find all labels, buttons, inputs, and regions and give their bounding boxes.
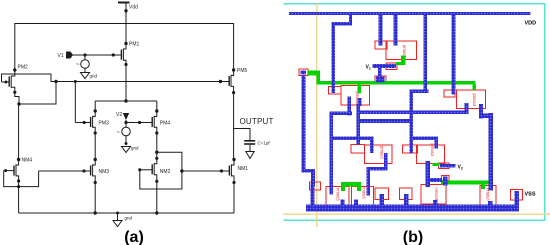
wire metal right link horizontal [479, 114, 493, 118]
wire metal mid horizontal B [356, 119, 412, 123]
contact bottom 3 red box [375, 188, 389, 200]
wire NM4 mirror to NM3 gate [19, 171, 39, 187]
wire metal long left vertical to nmos1 [330, 112, 334, 195]
wire metal V2 stub right [447, 164, 456, 168]
wire metal bottom-right cell drop [433, 200, 438, 207]
wire PM1 gate to V1 [72, 54, 113, 56]
svg-text:Vdd: Vdd [129, 5, 138, 11]
wire NM4 source down [18, 181, 20, 213]
svg-text:VDD: VDD [525, 21, 537, 27]
cell M9 red box (nmos far right) [480, 185, 496, 205]
wire green output bar [441, 181, 490, 185]
transistor PM4 [126, 109, 159, 134]
wire metal VDD bar [289, 12, 531, 15]
ground gnd (main rail) [113, 213, 122, 227]
svg-text:(a): (a) [124, 229, 144, 245]
svg-text:gnd: gnd [125, 216, 133, 221]
svg-text:gnd: gnd [90, 74, 98, 79]
cell M3 red boxes (middle-left) [351, 145, 392, 164]
svg-text:~: ~ [76, 62, 80, 68]
wire cyan boundary bottom [284, 220, 546, 222]
wire metal left contact to VSS [310, 188, 314, 205]
via VSS contact [515, 191, 520, 206]
wire metal drop to left pmos [332, 22, 336, 93]
svg-text:gnd: gnd [131, 146, 139, 151]
wire tail to PM3 drain [94, 101, 96, 111]
via V2 contact [440, 164, 447, 168]
node ground rail dots [94, 211, 97, 214]
svg-text:NM1: NM1 [238, 166, 249, 172]
wire metal mid-left bottom link horizontal [366, 167, 387, 170]
wire PM2 source loop to bias rail [19, 82, 56, 105]
wire metal VSS rail [306, 205, 519, 212]
svg-text:NM2: NM2 [160, 169, 171, 175]
svg-text:~: ~ [117, 130, 121, 136]
node V1 branch dot [83, 53, 86, 56]
svg-text:PM5: PM5 [237, 68, 248, 74]
wire metal horizontal to V2 lower contact [430, 178, 442, 182]
Vdd supply symbol [118, 3, 130, 44]
svg-text:VSS: VSS [525, 192, 536, 198]
wire metal mid-right cell to bottom cell [426, 161, 430, 187]
svg-text:PM3: PM3 [99, 121, 110, 127]
wire metal right pmos stub b [479, 104, 483, 119]
wire NM1 gate to NM2 mirror [182, 170, 222, 172]
wire green V2 stub [433, 163, 440, 166]
via V1 pad [376, 77, 384, 83]
wire metal V1 horizontal [372, 64, 387, 68]
wire metal stub linking B [356, 104, 360, 145]
via left-path contact [310, 184, 314, 189]
wire metal drop into mid-right cell [435, 136, 439, 148]
wire metal right pmos stub a [465, 103, 469, 114]
wire metal V1 clamp [387, 64, 396, 68]
via V2 lower contact [443, 176, 448, 185]
wire NM2 diode loop [140, 152, 182, 189]
cell M6 red box (nmos bottom 1) [326, 186, 349, 205]
svg-text:pmos3: pmos3 [430, 144, 435, 157]
contact VSS red box [511, 189, 523, 200]
wire PM1 source down to diff pair [125, 60, 127, 101]
wire metal VDD jog horizontal [332, 22, 352, 25]
node PM2 source dot [17, 102, 20, 105]
wire metal center vertical [410, 90, 414, 154]
transistor PM2 (diode connected) [2, 68, 57, 104]
wire bias rail [56, 81, 229, 83]
cell M5 red boxes (right pmos3) [444, 90, 486, 109]
source V1 sine [76, 55, 89, 73]
wire green gate L (upper pmos V1) [401, 56, 406, 65]
svg-text:pmos3: pmos3 [472, 94, 477, 107]
wire metal left path vertical 2 [311, 173, 315, 186]
schematic text labels [18, 5, 274, 221]
wire metal nmos2 drop to VSS [354, 200, 358, 208]
wire NM2 source to ground rail [156, 181, 158, 213]
transistor NM3 [39, 133, 97, 184]
wire top Vdd rail [15, 24, 234, 71]
svg-text:PM4: PM4 [160, 121, 171, 127]
wire tail to PM4 drain [156, 101, 158, 111]
wire metal left pmos source stub [348, 97, 352, 116]
wire metal mid horizontal C [410, 136, 439, 139]
svg-text:PM1: PM1 [129, 42, 140, 48]
svg-text:(b): (b) [403, 229, 423, 245]
capacitor C1 C=1pf [244, 141, 255, 152]
transistor PM5 [229, 68, 235, 94]
wire metal stub into mid-left cell [370, 136, 374, 153]
wire metal nmos1 drop to VSS [340, 200, 344, 208]
wire green gate drop (right pmos) [472, 84, 476, 90]
wire metal drop to right pmos [451, 15, 455, 95]
svg-text:V2: V2 [458, 165, 463, 171]
svg-text:nmos3: nmos3 [434, 188, 439, 201]
wire ground rail [19, 212, 234, 214]
contact left-path red box [310, 182, 321, 190]
wire diff pair top bar [95, 100, 157, 102]
ground gnd (V1) [81, 73, 90, 79]
node Vdd dot [124, 9, 127, 12]
via bias-rail-left [301, 71, 306, 75]
svg-text:NM3: NM3 [99, 169, 110, 175]
svg-text:NM4: NM4 [22, 158, 33, 164]
wire metal drop into bottom nmos2 [366, 167, 370, 195]
wire green gate bar (bottom left nmos pair) [341, 182, 361, 186]
wire PM5 source to output node [233, 93, 235, 160]
wire NM1 source to ground rail [233, 183, 235, 214]
ground gnd (V2) [122, 147, 131, 153]
wire green drop into right nmos [481, 184, 485, 189]
transistor NM4 (diode connected) [4, 104, 21, 183]
wire metal left path jog [301, 169, 315, 173]
port V1 [66, 52, 73, 59]
wire output branch to capacitor [234, 129, 250, 141]
wire metal far-right cell drop [488, 201, 493, 207]
wire NM3 source to ground rail [94, 183, 96, 214]
node tail dot [124, 99, 127, 102]
source V2 sine [117, 127, 131, 145]
wire yellow guide vertical [316, 3, 317, 227]
wire metal left pmos drain stub [358, 98, 362, 106]
svg-text:pmos3: pmos3 [380, 146, 385, 159]
transistor NM1 [220, 158, 236, 184]
wire metal contact3 drop to VSS [379, 194, 384, 206]
ground (capacitor) [246, 152, 254, 159]
contact V1 pad red box [375, 76, 386, 83]
svg-text:V1: V1 [366, 65, 371, 71]
wire metal drop to upper pmos b [393, 15, 397, 46]
wire metal VDD jog vertical [349, 15, 352, 25]
wire metal left path vertical [301, 76, 305, 173]
svg-text:C=1pf: C=1pf [258, 141, 271, 146]
svg-text:nmos3: nmos3 [362, 186, 367, 199]
contact V2-lower red box [442, 175, 449, 180]
svg-text:PM2: PM2 [18, 65, 29, 71]
wire cyan boundary right [544, 3, 546, 221]
wire metal horizontal A [330, 112, 352, 116]
port V2 [123, 113, 129, 120]
transistor PM3 [75, 109, 97, 134]
cell M8 red box (nmos bottom right) [421, 185, 446, 205]
wire metal mid-left bottom link vertical [384, 153, 388, 170]
wire metal drop to upper pmos a [379, 15, 383, 46]
wire NM4 gate tie loop [4, 171, 19, 187]
transistor PM1 [112, 42, 128, 66]
wire metal horizontal to mid-left cell [331, 136, 374, 140]
wire metal drain link horizontal [358, 111, 468, 115]
contact bottom 4 red box [400, 188, 413, 200]
wire metal right long vertical down [489, 113, 493, 191]
contact V2 red box [438, 163, 449, 169]
cell M4 red boxes (middle-right) [402, 145, 444, 163]
wire green bias rail [308, 71, 320, 76]
wire green gate drop (left pmos) [357, 84, 361, 93]
svg-text:nmos3: nmos3 [336, 188, 341, 201]
wire PM3 gate to bias rail [74, 82, 76, 123]
svg-text:V2: V2 [116, 112, 122, 118]
wire green drop nmos1 [341, 186, 345, 192]
contact bias-rail-left red box [299, 69, 308, 75]
cell M2 red boxes (left pmos3) [328, 86, 369, 105]
wire metal V1 vertical [378, 68, 382, 77]
wire metal long vertical from VDD [424, 15, 428, 93]
cell M7 red box (nmos bottom 2) [351, 186, 373, 205]
node bias rail dots [54, 80, 57, 83]
wire metal jog to center vertical [410, 90, 429, 93]
transistor NM2 (diode connected) [138, 133, 158, 183]
wire cyan boundary top [284, 3, 546, 5]
svg-text:OUTPUT: OUTPUT [240, 117, 274, 126]
wire yellow guide horizontal [283, 214, 550, 215]
wire green drop nmos2 [357, 186, 361, 192]
svg-text:V1: V1 [58, 53, 64, 59]
cell M1 red boxes (upper pmos3) [375, 41, 416, 59]
wire metal contact4 drop to VSS [404, 194, 409, 206]
